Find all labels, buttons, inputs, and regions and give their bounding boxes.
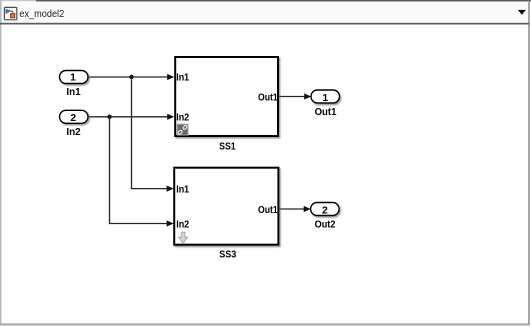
svg-text:SS1: SS1 bbox=[219, 142, 236, 153]
node junction on In1 wire bbox=[129, 75, 133, 79]
SS3 variant arrow badge bbox=[179, 232, 188, 243]
svg-text:1: 1 bbox=[322, 93, 328, 104]
svg-text:1: 1 bbox=[70, 73, 76, 84]
wire branch to SS3 In2 bbox=[110, 117, 169, 224]
svg-text:In2: In2 bbox=[176, 112, 189, 123]
svg-text:In2: In2 bbox=[66, 127, 81, 138]
wire SS3 Out1 to Out2 port bbox=[279, 208, 305, 210]
svg-text:Out2: Out2 bbox=[315, 220, 336, 231]
arrowhead SS3 In1 bbox=[167, 186, 174, 192]
inport block 1 oval bbox=[60, 71, 89, 84]
arrowhead SS1 In2 bbox=[167, 114, 174, 120]
svg-text:Out1: Out1 bbox=[258, 92, 278, 103]
wire In2 to SS1 bbox=[89, 116, 169, 118]
title bar dropdown triangle bbox=[518, 10, 526, 15]
title bar model icon bbox=[4, 7, 16, 19]
subsystem SS1 bbox=[175, 57, 278, 136]
svg-text:In1: In1 bbox=[176, 73, 189, 84]
svg-text:In1: In1 bbox=[176, 185, 189, 196]
svg-text:Out1: Out1 bbox=[315, 107, 337, 118]
wire SS1 Out1 to Out1 port bbox=[279, 96, 306, 98]
svg-text:2: 2 bbox=[70, 113, 76, 124]
subsystem SS3 bbox=[174, 168, 278, 245]
outport block 1 oval bbox=[311, 90, 340, 103]
svg-text:2: 2 bbox=[322, 205, 328, 216]
title bar background bbox=[1, 1, 529, 23]
arrowhead SS3 In2 bbox=[167, 220, 174, 226]
bottom window border bbox=[0, 323, 530, 325]
outport block 2 oval bbox=[311, 203, 340, 216]
arrowhead SS1 In1 bbox=[167, 74, 174, 80]
wire In1 to SS1 bbox=[88, 76, 168, 78]
svg-text:SS3: SS3 bbox=[219, 249, 236, 260]
title bar separator bbox=[0, 23, 529, 25]
wire branch to SS3 In1 bbox=[132, 77, 169, 189]
left window border bbox=[0, 0, 2, 325]
arrowhead Out2 bbox=[304, 206, 311, 212]
right window border bbox=[528, 1, 530, 325]
SS1 library link badge bbox=[177, 124, 188, 135]
svg-text:In1: In1 bbox=[66, 87, 81, 98]
inport block 2 oval bbox=[60, 110, 89, 123]
svg-text:In2: In2 bbox=[176, 220, 189, 231]
top border dark segment bbox=[36, 0, 531, 2]
node junction on In2 wire bbox=[107, 115, 111, 119]
svg-text:Out1: Out1 bbox=[258, 205, 278, 216]
arrowhead Out1 bbox=[304, 93, 311, 99]
top border left light segment bbox=[0, 0, 36, 1]
svg-text:ex_model2: ex_model2 bbox=[19, 9, 64, 20]
